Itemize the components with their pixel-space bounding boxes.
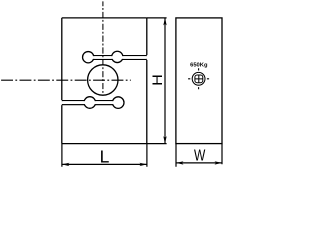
dimension H arrows	[163, 18, 166, 144]
svg-text:W: W	[194, 146, 206, 164]
bottom slot interior erase	[62, 101, 118, 104]
central hole	[88, 65, 118, 95]
bottom slot right hole	[112, 97, 124, 109]
dimension W line	[176, 162, 222, 164]
left view: load cell body outline	[62, 18, 147, 144]
dimension L extension lines	[62, 144, 147, 167]
bottom slot wire lines	[62, 101, 113, 105]
dimension H extension lines	[147, 18, 167, 144]
dimension W extension lines	[176, 144, 222, 167]
top slot right hole	[112, 51, 123, 62]
top slot interior erase	[88, 56, 146, 59]
connector inner grid	[195, 75, 203, 83]
bottom slot left hole	[84, 97, 96, 109]
dimension L line	[62, 163, 147, 165]
connector cross ticks	[188, 68, 209, 89]
vertical centerline	[102, 1, 104, 95]
dimension H line	[164, 18, 166, 144]
svg-text:L: L	[100, 147, 110, 167]
horizontal centerline	[1, 79, 131, 81]
svg-text:650Kg: 650Kg	[190, 63, 208, 69]
top slot wire lines	[93, 56, 146, 60]
top slot left hole	[83, 52, 94, 63]
dimension L arrows	[62, 163, 147, 166]
dimension W arrows	[176, 161, 222, 164]
connector circle	[192, 72, 205, 85]
svg-text:H: H	[151, 74, 165, 86]
right view: side outline	[176, 18, 222, 144]
